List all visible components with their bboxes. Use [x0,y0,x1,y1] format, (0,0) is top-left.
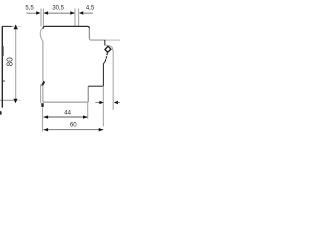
dimension 44 right arrow [83,115,88,118]
extension line left for 44/60 dims [42,107,44,131]
small front dimension right tail [118,102,121,104]
dimension 4,5 tail [83,12,93,14]
side view top edge [43,26,89,29]
side view corner slant below toggle [103,61,105,64]
front view lower corner feature [0,111,2,114]
side view rear edge lower [42,85,44,102]
side view rear edge [42,41,44,81]
small front dimension right arrow [99,101,103,104]
extension line from front lower corner [102,86,104,126]
dimension 80 up arrow [14,24,18,29]
dimension 30,5 right arrow [70,11,74,15]
dimension 5,5 arrow [36,11,40,15]
front view top edge / extension for 80 dim [2,25,12,27]
side view bottom edge [43,101,88,103]
dimension 44 line [44,116,88,118]
extension line D [78,9,80,27]
svg-text:5,5: 5,5 [25,6,34,12]
front view face tick [2,80,5,82]
side view bottom front step horizontal [88,85,103,87]
extension line B (body rear) [42,9,44,27]
svg-text:4,5: 4,5 [86,6,95,12]
extension line right from shoulder [105,39,120,41]
side view clip slider line [40,85,42,104]
dimension 60 right arrow [99,128,104,131]
dimension 4,5 arrow [79,11,83,15]
extension line A (clip rear) [40,9,42,27]
side view bottom front step vertical [87,86,89,102]
extension line C [74,9,76,27]
dimension 60 line [44,129,104,131]
side view front lower edge [102,64,104,87]
side view rear claw wedge [41,81,45,86]
side view toggle lever [105,46,111,52]
svg-text:44: 44 [64,111,71,117]
dimension 60 left arrow [44,128,49,131]
side view upper right vertical [88,28,90,39]
dimension 5,5 tail [27,12,37,14]
dimension 30,5 left arrow [44,11,48,15]
svg-text:30,5: 30,5 [52,6,64,12]
front view bottom extension line [0,99,14,101]
svg-text:60: 60 [70,123,77,129]
front view right edge [1,26,3,107]
front view toggle edge [2,46,4,56]
svg-text:80: 80 [5,57,14,66]
side view step down to toggle recess [104,40,106,46]
side view front face [112,54,114,111]
side view shoulder to top face [89,38,105,40]
small front dimension left arrow [114,101,118,104]
side view clip tongue [41,103,43,107]
small front dimension line [95,102,99,104]
dimension 44 left arrow [44,115,49,118]
dimension 80 down arrow [13,99,17,103]
dimension 80 line [15,27,17,100]
side view front top curve [105,45,113,53]
dimension 30,5 line [44,12,75,14]
side view rear clip bump [40,28,43,41]
extension line for 44 dim [87,102,89,119]
side view toggle axis dashes [105,53,107,61]
